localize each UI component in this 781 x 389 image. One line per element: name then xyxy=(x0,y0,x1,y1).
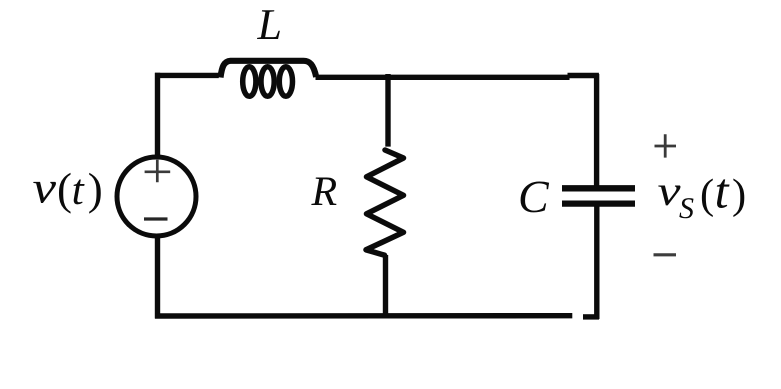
svg-text:R: R xyxy=(311,169,338,215)
svg-text:C: C xyxy=(518,171,550,222)
voltage source v(t) circle xyxy=(117,157,196,236)
wire: bottom rail main segment xyxy=(155,313,572,319)
wire: top rail right segment xyxy=(316,75,570,80)
wire: right vertical lower (capacitor bottom lead) xyxy=(594,207,599,320)
inductor L loop 3 xyxy=(279,67,292,97)
wire: left vertical (source top lead) xyxy=(155,73,160,156)
output minus sign xyxy=(654,253,677,256)
wire: top rail left segment xyxy=(155,73,219,78)
wire: resistor bottom lead xyxy=(383,255,388,319)
inductor L loop 2 xyxy=(261,67,274,97)
svg-text:vS(t): vS(t) xyxy=(658,163,747,226)
capacitor C bottom plate xyxy=(562,200,635,206)
voltage source plus sign xyxy=(145,160,171,183)
capacitor C top plate xyxy=(562,185,635,191)
svg-text:v(t): v(t) xyxy=(33,163,103,214)
svg-text:L: L xyxy=(257,0,282,49)
wire: right vertical upper (capacitor top lead) xyxy=(594,74,599,186)
resistor R zigzag xyxy=(366,150,404,255)
wire: top rail short piece before right corner xyxy=(568,73,599,78)
output plus sign xyxy=(655,134,677,157)
inductor L loop 1 xyxy=(243,67,256,97)
wire: bottom rail short right stub after gap xyxy=(583,314,599,319)
wire: resistor top lead xyxy=(385,74,390,147)
inductor L coil body xyxy=(221,61,317,78)
voltage source minus sign xyxy=(144,217,168,220)
wire: left vertical (source bottom lead) xyxy=(155,237,160,319)
